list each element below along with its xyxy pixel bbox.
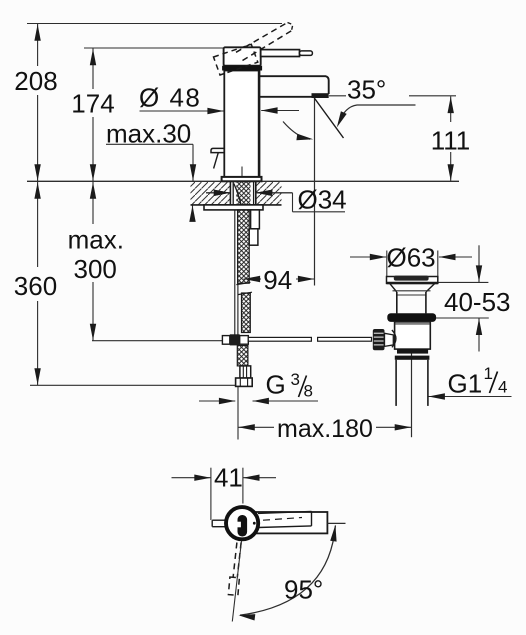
svg-text:208: 208 — [14, 66, 57, 96]
svg-text:174: 174 — [71, 89, 114, 119]
svg-text:max.180: max.180 — [277, 415, 373, 443]
svg-text:41: 41 — [214, 463, 243, 493]
svg-text:8: 8 — [304, 382, 313, 401]
svg-text:Ø 48: Ø 48 — [139, 83, 201, 113]
svg-text:4: 4 — [498, 378, 507, 397]
svg-text:95°: 95° — [284, 575, 323, 605]
svg-text:G: G — [266, 370, 286, 400]
svg-text:1: 1 — [484, 364, 493, 383]
svg-text:40-53: 40-53 — [444, 287, 511, 317]
svg-text:Ø34: Ø34 — [298, 185, 347, 215]
svg-text:3: 3 — [291, 370, 300, 389]
svg-text:94: 94 — [263, 265, 292, 295]
svg-text:300: 300 — [74, 254, 117, 284]
svg-text:360: 360 — [14, 271, 57, 301]
svg-text:111: 111 — [431, 126, 471, 156]
svg-text:Ø63: Ø63 — [387, 243, 436, 273]
svg-text:max.: max. — [68, 225, 124, 255]
svg-text:G1: G1 — [448, 369, 483, 399]
svg-text:35°: 35° — [347, 75, 386, 105]
